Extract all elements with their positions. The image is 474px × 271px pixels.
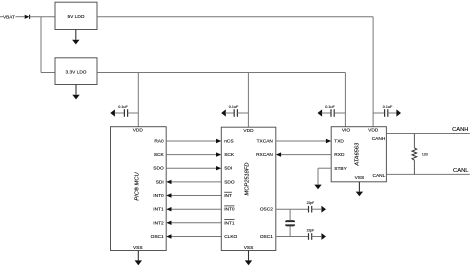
wire 3.3V rail drop to ATA VIO — [344, 73, 346, 127]
svg-text:CANH: CANH — [452, 127, 468, 133]
svg-text:CANL: CANL — [453, 168, 469, 174]
svg-text:VDD: VDD — [368, 128, 379, 134]
ground arrow on STBY — [314, 185, 321, 190]
svg-text:PIC® MCU: PIC® MCU — [134, 172, 141, 201]
svg-text:ATA6563: ATA6563 — [355, 142, 361, 167]
wire OSC1 to CLKO — [166, 234, 221, 238]
svg-text:22pF: 22pF — [307, 229, 315, 233]
capacitor C2 0.1uF (MCP VDD bypass) — [221, 105, 248, 117]
svg-text:VSS: VSS — [355, 175, 365, 181]
wire VBAT to diode — [15, 16, 24, 18]
wire INT0 to INT — [166, 193, 221, 197]
regulator 3.3V LDO — [55, 58, 97, 85]
svg-text:OSC2: OSC2 — [260, 207, 273, 213]
crystal Y1 — [285, 209, 295, 236]
wire INT1 to INT0 — [166, 207, 221, 211]
wire 3.3V rail drop to MCP VDD — [247, 73, 249, 128]
svg-text:0.1uF: 0.1uF — [118, 105, 128, 109]
svg-text:CLKO: CLKO — [224, 234, 237, 240]
svg-text:INT0: INT0 — [224, 207, 235, 213]
svg-text:MCP2518FD: MCP2518FD — [244, 163, 250, 196]
diode D1 — [25, 15, 30, 19]
resistor R1 120 (termination) — [412, 134, 428, 175]
svg-text:120: 120 — [422, 153, 428, 157]
wire diode to 5V LDO input — [30, 16, 55, 18]
capacitor C6 22pF (OSC1) — [307, 229, 326, 240]
svg-text:INT1: INT1 — [224, 220, 235, 226]
wire CANL net — [386, 173, 469, 175]
svg-text:VDD: VDD — [133, 127, 144, 133]
svg-text:TXCAN: TXCAN — [257, 139, 274, 145]
wire SDI to SDO — [166, 180, 221, 184]
svg-text:0.1uF: 0.1uF — [229, 105, 239, 109]
wire OSC1 — [276, 236, 309, 238]
ground arrow below MCP VSS — [245, 251, 252, 266]
svg-text:RXD: RXD — [334, 152, 345, 158]
svg-text:0.1uF: 0.1uF — [383, 105, 393, 109]
svg-text:CANH: CANH — [372, 136, 386, 142]
capacitor C1 0.1uF (PIC VDD bypass) — [110, 105, 138, 117]
wire 3.3V rail — [97, 72, 345, 74]
wire VBAT branch down to 3.3V LDO — [41, 17, 55, 73]
MCU U1 PIC MCU — [111, 127, 167, 252]
svg-text:VDD: VDD — [243, 128, 254, 134]
svg-text:RA0: RA0 — [154, 139, 164, 145]
svg-text:SCK: SCK — [224, 152, 235, 158]
net label VBAT — [0, 14, 15, 19]
svg-text:VBAT: VBAT — [3, 14, 15, 19]
svg-text:3.3V LDO: 3.3V LDO — [65, 70, 86, 76]
wire STBY to ground — [318, 168, 331, 184]
wire RXD to RXCAN — [276, 152, 331, 156]
ground arrow below 3.3V LDO — [72, 85, 79, 100]
svg-text:OSC1: OSC1 — [151, 234, 164, 240]
svg-text:SDO: SDO — [153, 166, 164, 172]
wire OSC2 — [276, 208, 309, 210]
svg-text:STBY: STBY — [334, 166, 347, 172]
wire 5V rail — [97, 17, 373, 127]
svg-text:INT: INT — [224, 193, 232, 199]
regulator 5V LDO — [55, 2, 97, 29]
svg-text:TXD: TXD — [334, 139, 344, 145]
wire 3.3V rail drop to PIC VDD — [137, 73, 139, 127]
wire CANH net — [386, 133, 469, 135]
svg-text:OSC1: OSC1 — [260, 234, 273, 240]
svg-text:CANL: CANL — [373, 173, 386, 179]
ground arrow below 5V LDO — [72, 30, 79, 45]
svg-text:0.1uF: 0.1uF — [325, 105, 335, 109]
svg-text:INT0: INT0 — [153, 193, 164, 199]
wire TXCAN to TXD — [276, 139, 331, 143]
capacitor C5 22pF (OSC2) — [307, 201, 326, 212]
svg-text:VIO: VIO — [342, 128, 351, 134]
wire SCK to SCK — [166, 152, 221, 156]
ground arrow below PIC VSS — [135, 251, 142, 266]
svg-text:SDI: SDI — [156, 179, 164, 185]
svg-text:SDI: SDI — [224, 166, 232, 172]
wire SDO to SDI — [166, 166, 221, 170]
wire INT2 to INT1 — [166, 221, 221, 225]
svg-text:22pF: 22pF — [307, 201, 315, 205]
CAN controller U2 MCP2518FD — [221, 127, 275, 251]
svg-text:VSS: VSS — [244, 245, 254, 251]
wire RA0 to nCS — [166, 139, 221, 143]
svg-text:RXCAN: RXCAN — [256, 152, 273, 158]
CAN transceiver U3 ATA6563 — [331, 127, 386, 182]
ground arrow below ATA VSS — [356, 182, 363, 197]
svg-text:INT2: INT2 — [153, 220, 164, 226]
svg-text:nCS: nCS — [224, 139, 233, 145]
svg-text:5V LDO: 5V LDO — [67, 14, 84, 20]
svg-text:SCK: SCK — [154, 152, 165, 158]
svg-text:SDO: SDO — [224, 179, 235, 185]
svg-text:VSS: VSS — [133, 245, 143, 251]
svg-text:INT1: INT1 — [153, 207, 164, 213]
capacitor C3 0.1uF (ATA VIO bypass) — [318, 105, 346, 117]
capacitor C4 0.1uF (ATA VDD bypass) — [373, 105, 401, 117]
